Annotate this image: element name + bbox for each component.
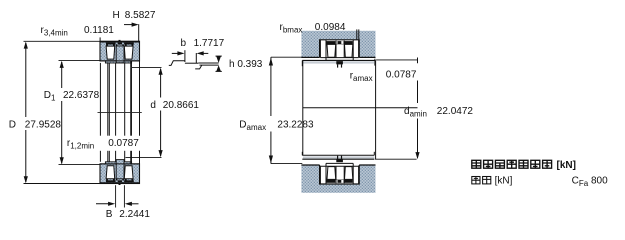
dimension h top arrow	[216, 56, 221, 63]
outer ring section (bottom block fill)	[100, 164, 140, 184]
lube groove notch (top, OD)	[119, 40, 121, 42]
middle rib (bottom block)	[116, 160, 124, 179]
bearing outline in seat (top): cage band	[326, 41, 352, 44]
lube groove notch (bottom, OD)	[119, 183, 121, 185]
dimension D_amax leader bottom	[271, 163, 302, 165]
inner ring bore line (top block)	[100, 60, 140, 62]
housing seat cutout outline (bottom)	[320, 165, 360, 184]
roller right (top block)	[124, 46, 133, 59]
svg-text:1.7717: 1.7717	[194, 38, 225, 49]
locating key mark (bottom)	[336, 159, 343, 162]
housing top edge line (bottom block)	[301, 164, 319, 166]
dimension d_amin line	[417, 81, 419, 104]
abutment grey band bottom	[303, 156, 375, 158]
outer ring OD edge emphasis (top)	[100, 41, 140, 43]
middle rib (top block)	[116, 46, 124, 63]
dimension b right arrow	[201, 52, 209, 54]
housing bottom edge line (top block)	[301, 56, 319, 58]
housing section bottom	[301, 165, 375, 193]
shoulder step thick line (bottom right)	[130, 157, 132, 164]
cage pocket nubs (bottom block)	[106, 178, 133, 180]
dimension H arrow	[124, 24, 136, 26]
dimension d line with arrows	[160, 69, 162, 98]
dimension D1 line with arrows	[61, 62, 63, 88]
bearing rollers (bottom)	[327, 167, 336, 180]
dimension D_amax line with arrows	[270, 57, 272, 116]
inner ring bore line (bottom block)	[100, 163, 140, 165]
dimension h bottom arrow	[216, 65, 221, 71]
dimension D extension line bottom	[24, 183, 100, 185]
housing seat cutout bottom	[320, 165, 360, 184]
groove profile bottom	[185, 62, 198, 64]
outer ring section (top block fill)	[100, 41, 140, 61]
dimension D_amax leader top	[271, 56, 302, 58]
svg-text:8.5827: 8.5827	[125, 10, 156, 21]
bearing outline in seat (bottom): cage band	[326, 180, 352, 183]
svg-text:20.8661: 20.8661	[163, 100, 200, 111]
housing section top	[301, 31, 375, 58]
centerline (left view axis)	[98, 111, 142, 113]
shaft shoulder edge left	[302, 60, 304, 155]
locating key mark (top)	[336, 61, 343, 64]
dimension b left arrow	[172, 52, 181, 54]
svg-text:0.0984: 0.0984	[315, 22, 346, 33]
shaft abutment line bottom	[302, 158, 374, 160]
r3,4 leader line	[99, 37, 101, 41]
outer ring OD edge emphasis (bottom)	[100, 182, 140, 184]
svg-text:D: D	[9, 119, 16, 130]
roller right (bottom block)	[124, 166, 133, 179]
dimension B arrows	[96, 203, 113, 205]
dimension B extension line left	[115, 185, 117, 207]
svg-text:2.2441: 2.2441	[119, 209, 150, 220]
dimension D1 extension line bottom	[59, 164, 100, 166]
dimension D extension line top	[24, 40, 100, 42]
svg-text:d: d	[150, 100, 156, 111]
abutment grey band top	[303, 61, 375, 63]
bearing edges (bottom)	[320, 163, 358, 184]
inner ring strip (top block)	[105, 61, 131, 63]
svg-text:22.0472: 22.0472	[437, 106, 474, 117]
heading: comparative load rating [kN] (CJK glyph mimics)	[472, 160, 552, 168]
dimension B extension line right	[123, 185, 125, 207]
svg-text:27.9528: 27.9528	[25, 119, 62, 130]
housing seat cutout top	[320, 40, 360, 58]
shaft mid reference line	[303, 107, 418, 109]
roller left (bottom block)	[106, 166, 115, 179]
groove profile lower sheet line	[200, 64, 219, 66]
shoulder step thick line (top right)	[130, 61, 132, 68]
bearing edges (top)	[320, 40, 358, 61]
svg-text:23.2283: 23.2283	[277, 119, 314, 130]
roller left (top block)	[106, 46, 115, 59]
cage band (top block)	[106, 43, 134, 45]
svg-text:[kN]: [kN]	[495, 176, 513, 187]
svg-text:h 0.393: h 0.393	[229, 59, 263, 70]
groove profile left land	[169, 61, 185, 66]
dimension d_amin leader top	[376, 59, 417, 61]
axial label (CJK glyph mimics)	[472, 177, 491, 184]
svg-text:b: b	[181, 38, 187, 49]
r_b leader double lines	[356, 29, 358, 39]
bore edge lines (between sections)	[100, 61, 139, 164]
dimension H extension line	[138, 24, 140, 41]
inner ring strip (bottom block)	[105, 162, 131, 164]
groove profile lower hook	[195, 65, 202, 69]
groove profile upper sheet line	[198, 62, 218, 64]
svg-text:0.0787: 0.0787	[386, 69, 417, 80]
housing seat cutout outline (top)	[320, 40, 360, 58]
dimension h top tick	[216, 55, 222, 57]
shaft shoulder edge right	[375, 60, 377, 159]
svg-text:22.6378: 22.6378	[63, 90, 100, 101]
svg-text:[kN]: [kN]	[557, 160, 576, 171]
bearing rollers (top)	[327, 44, 336, 57]
cage band (bottom block)	[106, 180, 134, 182]
dimension h bottom tick	[216, 70, 222, 72]
svg-text:B: B	[106, 209, 113, 220]
dimension d extension line bottom	[126, 156, 162, 158]
groove profile right wall / extension	[195, 53, 197, 63]
svg-text:H: H	[113, 10, 120, 21]
groove profile left wall / extension	[184, 50, 186, 62]
svg-text:CFa 800: CFa 800	[572, 175, 608, 188]
svg-text:0.0787: 0.0787	[108, 138, 139, 149]
cage pocket nubs (top block)	[106, 44, 133, 46]
shaft abutment upper line bottom	[302, 154, 374, 156]
svg-text:0.1181: 0.1181	[84, 25, 114, 36]
dimension D1 extension line top	[59, 60, 100, 62]
dimension D line with arrows	[25, 43, 27, 117]
shaft abutment line top with end ticks	[302, 59, 375, 61]
dimension d_amin leader bottom	[375, 158, 417, 160]
dimension d extension line top	[132, 66, 162, 68]
